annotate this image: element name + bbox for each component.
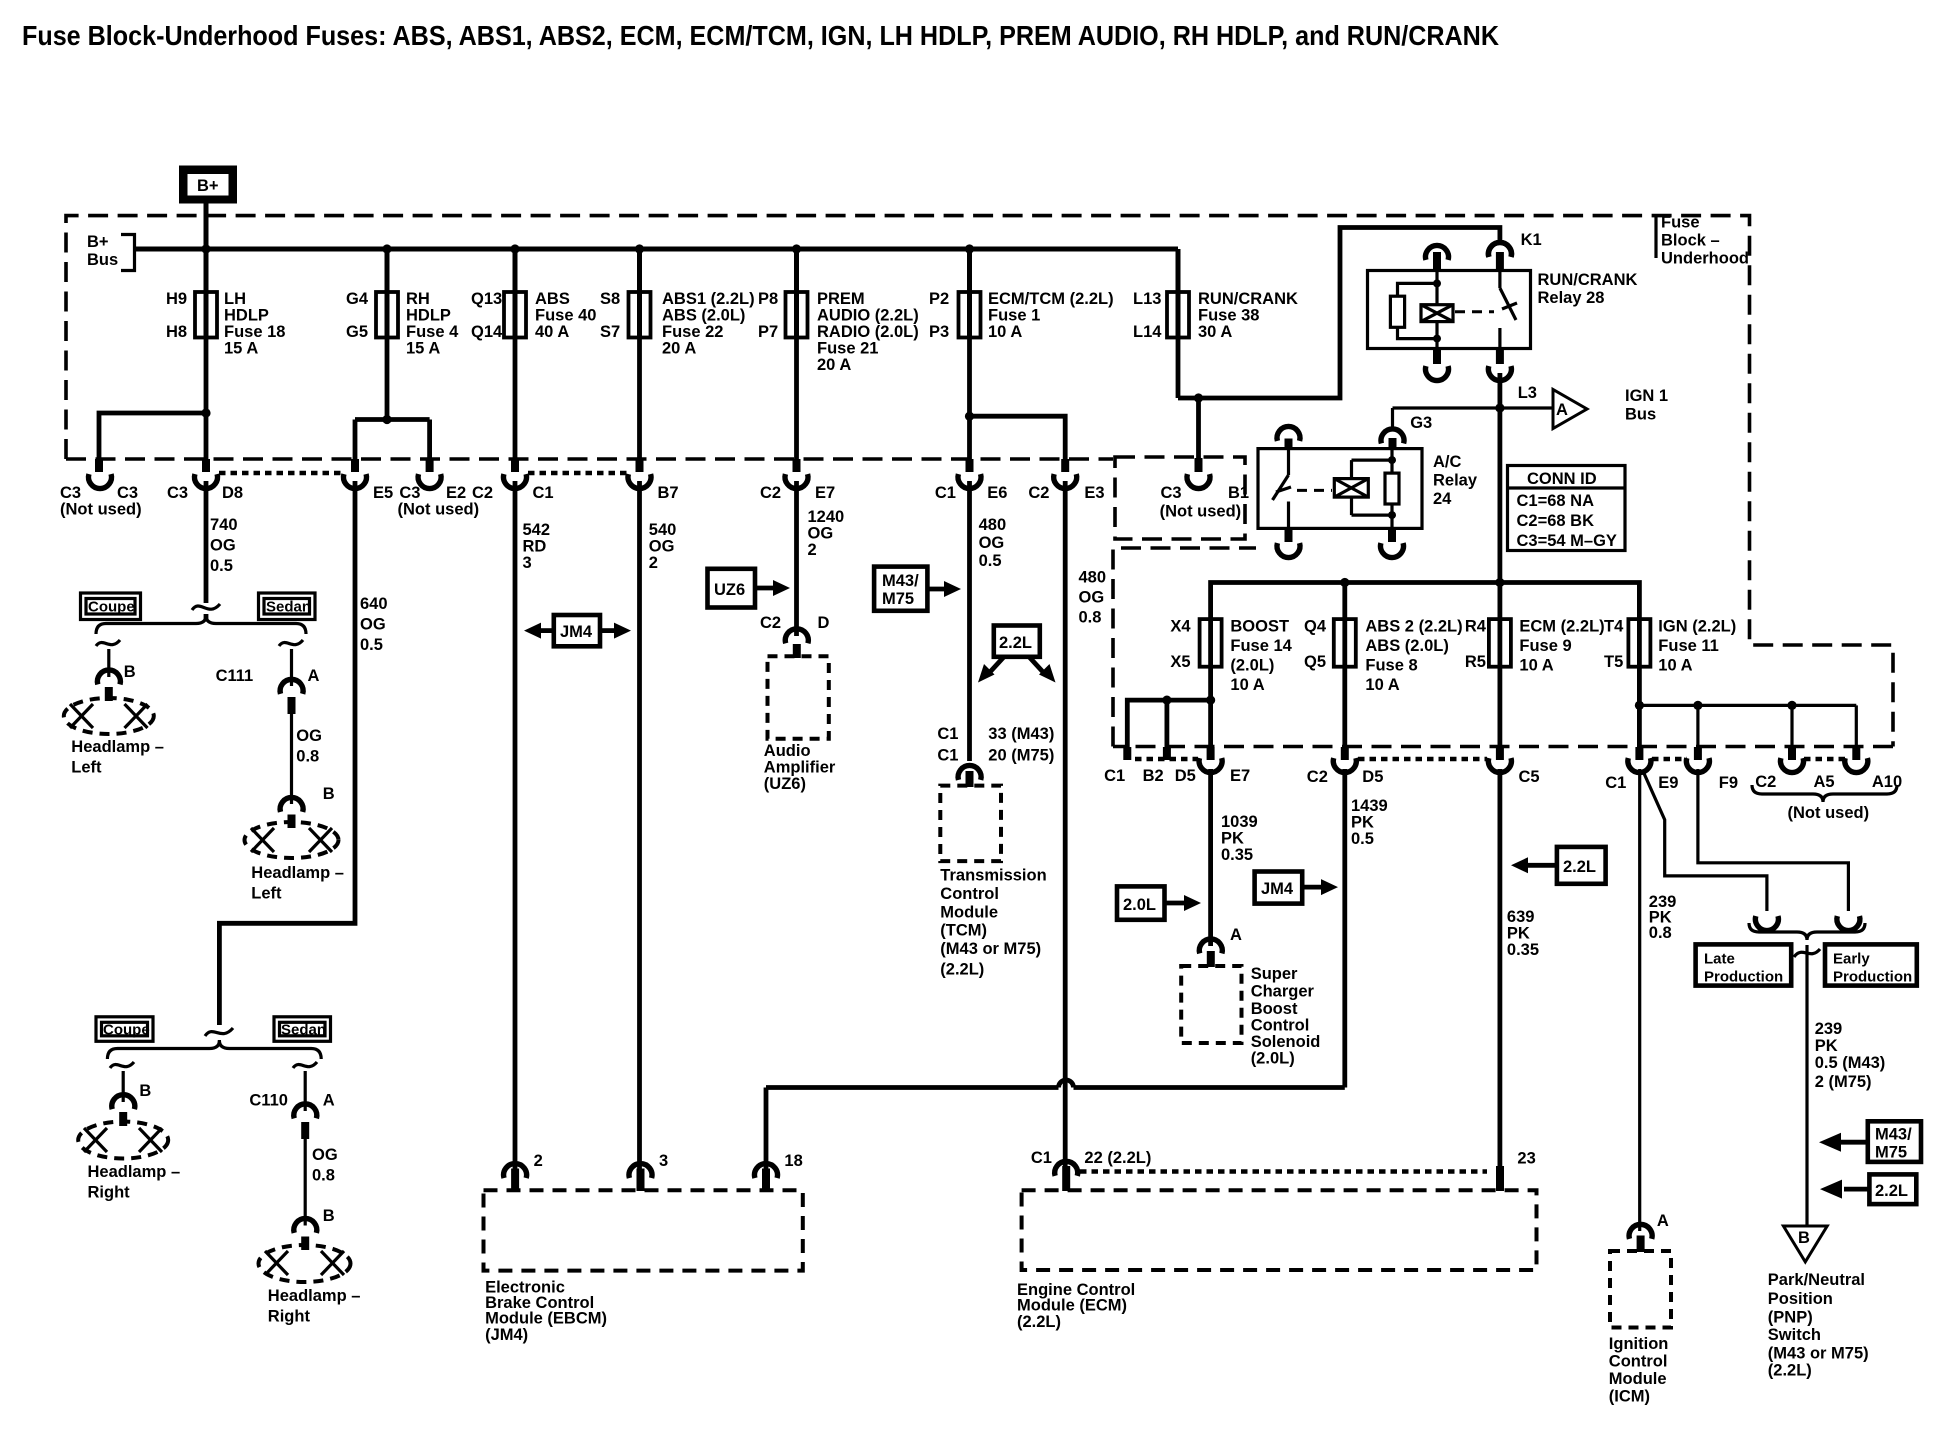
svg-text:C2: C2: [760, 614, 781, 632]
svg-text:Fuse 9: Fuse 9: [1519, 637, 1571, 655]
svg-text:H8: H8: [166, 323, 187, 341]
svg-text:Fuse 11: Fuse 11: [1658, 637, 1719, 655]
svg-text:1439: 1439: [1351, 797, 1388, 815]
production connector arc left: [1755, 916, 1778, 931]
svg-text:(M43 or M75): (M43 or M75): [1768, 1345, 1869, 1363]
M43/M75 option callout 2: [1819, 1121, 1921, 1162]
svg-text:A: A: [323, 1092, 335, 1110]
svg-text:24: 24: [1433, 490, 1452, 508]
production brace: [1749, 923, 1865, 940]
svg-text:2.2L: 2.2L: [1563, 858, 1596, 876]
svg-text:C5: C5: [1519, 768, 1540, 786]
svg-text:G4: G4: [346, 290, 369, 308]
svg-text:E6: E6: [987, 484, 1007, 502]
svg-text:RUN/CRANK: RUN/CRANK: [1538, 271, 1638, 289]
svg-text:B+: B+: [87, 233, 109, 251]
svg-text:2: 2: [808, 541, 817, 559]
svg-text:PREM: PREM: [817, 290, 865, 308]
svg-text:B: B: [124, 663, 136, 681]
Ignition Control Module (ICM): [1610, 1251, 1671, 1328]
svg-text:H9: H9: [166, 290, 187, 308]
svg-text:639: 639: [1507, 908, 1535, 926]
svg-text:0.35: 0.35: [1507, 941, 1539, 959]
svg-text:Fuse 21: Fuse 21: [817, 340, 878, 358]
svg-text:22 (2.2L): 22 (2.2L): [1084, 1149, 1151, 1167]
svg-text:C1=68 NA: C1=68 NA: [1517, 492, 1595, 510]
ECM fuse output: [1498, 667, 1503, 747]
production connector arc right: [1837, 916, 1860, 931]
svg-text:OG: OG: [312, 1146, 338, 1164]
fuse F22 ABS1: [600, 290, 755, 358]
svg-text:P8: P8: [758, 290, 778, 308]
svg-text:B: B: [1798, 1229, 1810, 1247]
svg-text:P7: P7: [758, 323, 778, 341]
CONN ID legend: [1508, 466, 1626, 551]
svg-text:0.5: 0.5: [210, 557, 233, 575]
svg-text:Headlamp –: Headlamp –: [88, 1163, 181, 1181]
svg-text:0.5: 0.5: [1351, 830, 1374, 848]
svg-text:Module (EBCM): Module (EBCM): [485, 1310, 607, 1328]
svg-text:Coupe: Coupe: [103, 1022, 150, 1039]
svg-text:OG: OG: [979, 534, 1005, 552]
svg-text:3: 3: [523, 554, 532, 572]
fuse F11 IGN: [1604, 618, 1736, 675]
connector C110 pin A: [294, 1104, 317, 1119]
connector B headlamp right sedan: [294, 1218, 317, 1233]
wire 639 PK 0.35: [1498, 769, 1503, 1168]
connector C1 pin E6: [966, 459, 974, 472]
svg-text:C1: C1: [1031, 1149, 1052, 1167]
Engine Control Module (ECM): [1022, 1190, 1537, 1270]
connector row dashes A5-A10: [1804, 757, 1845, 762]
svg-text:15 A: 15 A: [406, 340, 440, 358]
svg-text:D: D: [818, 614, 830, 632]
svg-text:480: 480: [979, 516, 1007, 534]
svg-text:E7: E7: [815, 484, 835, 502]
connector C1 pin E9: [1635, 747, 1643, 760]
connector row dashes D5-C5: [1358, 757, 1487, 762]
svg-text:C1: C1: [935, 484, 956, 502]
svg-text:K1: K1: [1521, 231, 1542, 249]
svg-text:C2: C2: [1307, 768, 1328, 786]
A/C coil-switch dashed link: [1297, 489, 1332, 492]
fuse F40 ABS: [471, 290, 596, 341]
svg-text:(Not used): (Not used): [1788, 804, 1870, 822]
fuse F4 RH HDLP: [346, 290, 459, 358]
svg-text:OG: OG: [360, 616, 386, 634]
wire OG 0.8 sedan right: [304, 1139, 307, 1226]
svg-text:IGN 1: IGN 1: [1625, 387, 1668, 405]
fuse F1 ECM/TCM: [929, 290, 1114, 341]
ABS2 fuse output: [1342, 667, 1347, 747]
svg-text:P3: P3: [929, 323, 949, 341]
connector B headlamp left sedan: [280, 797, 303, 812]
Early Production callout: [1825, 944, 1917, 985]
svg-text:Amplifier: Amplifier: [764, 759, 836, 777]
svg-text:Right: Right: [268, 1308, 311, 1326]
svg-text:R4: R4: [1465, 618, 1487, 636]
svg-text:C2: C2: [1755, 773, 1776, 791]
svg-text:0.8: 0.8: [1079, 609, 1102, 627]
svg-text:2: 2: [534, 1152, 543, 1170]
wire bus to fuse 1: [967, 249, 972, 292]
svg-text:3: 3: [659, 1152, 668, 1170]
connector C111 pin A: [280, 679, 303, 694]
svg-text:C1: C1: [533, 484, 554, 502]
inner fuse row feed wire: [1211, 578, 1640, 619]
svg-text:PK: PK: [1815, 1037, 1838, 1055]
svg-text:L3: L3: [1518, 384, 1537, 402]
M43/M75 option callout: [874, 567, 961, 611]
svg-text:Fuse Block-Underhood Fuses: AB: Fuse Block-Underhood Fuses: ABS, ABS1, A…: [22, 20, 1499, 51]
svg-text:L14: L14: [1133, 323, 1162, 341]
svg-text:10 A: 10 A: [1230, 676, 1264, 694]
svg-text:23: 23: [1517, 1150, 1535, 1168]
svg-text:1240: 1240: [808, 508, 845, 526]
connector C3 pin B1 (not used): [1195, 458, 1203, 472]
svg-text:M43/: M43/: [1875, 1126, 1912, 1144]
svg-text:C3: C3: [399, 484, 420, 502]
wire fuse 21 output: [794, 338, 799, 460]
svg-text:10 A: 10 A: [1519, 657, 1553, 675]
svg-text:C2: C2: [760, 484, 781, 502]
svg-text:C1: C1: [1605, 774, 1626, 792]
wire 540 OG 2: [637, 481, 642, 1170]
svg-text:(UZ6): (UZ6): [764, 775, 806, 793]
fuse F38 RUN/CRANK: [1133, 290, 1298, 341]
svg-text:0.35: 0.35: [1221, 846, 1253, 864]
svg-text:Fuse 14: Fuse 14: [1230, 637, 1292, 655]
svg-text:B+: B+: [197, 177, 219, 195]
connector row dashes C1-B7: [528, 471, 627, 476]
K1 feed wire from fuse 38: [1178, 228, 1500, 459]
wire F9 branch to production splice: [1698, 769, 1849, 911]
svg-text:Production: Production: [1833, 969, 1912, 986]
svg-text:C1: C1: [1104, 767, 1125, 785]
connector C2 pin A5 (not used): [1788, 747, 1796, 760]
connector arc C3 (not used): [89, 474, 112, 489]
headlamp left (coupe): [64, 698, 154, 734]
Fuse Block label: [1656, 214, 1749, 268]
svg-text:M75: M75: [882, 590, 914, 608]
svg-text:1039: 1039: [1221, 813, 1258, 831]
connector C3 not used stub: [95, 459, 103, 472]
svg-text:Super: Super: [1251, 965, 1298, 983]
connector C3 pin E2 not used: [426, 459, 434, 472]
wire 542 RD 3: [513, 481, 518, 1170]
wire 239 PK to PNP switch: [1805, 945, 1808, 1226]
JM4 splice callout with arrows: [524, 615, 631, 646]
svg-text:B: B: [323, 1207, 335, 1225]
wire net to EBCM 18 with hop over 480 wire: [766, 1080, 1345, 1170]
K1 relay bottom connector arcs: [1433, 349, 1441, 365]
fuse F9 ECM: [1465, 618, 1605, 675]
svg-text:(Not used): (Not used): [398, 501, 480, 519]
svg-text:Right: Right: [88, 1184, 131, 1202]
svg-text:18: 18: [784, 1152, 802, 1170]
svg-text:Left: Left: [71, 759, 102, 777]
svg-text:Early: Early: [1833, 951, 1870, 968]
svg-text:542: 542: [523, 521, 551, 539]
svg-text:480: 480: [1079, 569, 1107, 587]
svg-text:E2: E2: [446, 484, 466, 502]
connector C3 dashed box (B1 not used): [1115, 457, 1245, 539]
svg-text:ABS1 (2.2L): ABS1 (2.2L): [662, 290, 755, 308]
svg-text:S7: S7: [600, 323, 620, 341]
svg-text:239: 239: [1815, 1020, 1843, 1038]
connector row dashes D8-E5: [219, 471, 342, 476]
svg-text:A5: A5: [1814, 773, 1835, 791]
svg-text:ABS (2.0L): ABS (2.0L): [662, 307, 745, 325]
wire fuse 4 output split: [355, 338, 430, 460]
svg-text:OG: OG: [649, 538, 675, 556]
svg-text:(2.0L): (2.0L): [1251, 1050, 1295, 1068]
svg-text:M75: M75: [1875, 1144, 1907, 1162]
svg-text:ECM (2.2L): ECM (2.2L): [1519, 618, 1604, 636]
svg-text:Transmission: Transmission: [940, 867, 1046, 885]
svg-text:ABS 2 (2.2L): ABS 2 (2.2L): [1365, 618, 1462, 636]
svg-text:33 (M43): 33 (M43): [988, 725, 1054, 743]
svg-text:S8: S8: [600, 290, 620, 308]
svg-text:(M43 or M75): (M43 or M75): [940, 940, 1041, 958]
svg-text:B: B: [323, 785, 335, 803]
svg-text:Production: Production: [1704, 969, 1783, 986]
IGN 1 Bus tap: [1393, 387, 1669, 429]
svg-text:0.8: 0.8: [312, 1167, 335, 1185]
connector C1 pin 22 ECM: [1055, 1161, 1078, 1176]
svg-text:Module (ECM): Module (ECM): [1017, 1297, 1127, 1315]
connector pin D5 stub: [1163, 747, 1171, 760]
Super Charger Boost Control Solenoid: [1181, 966, 1241, 1043]
JM4 option callout 2: [1255, 872, 1338, 904]
svg-text:40 A: 40 A: [535, 323, 569, 341]
K1 relay coil connector arc top left: [1426, 245, 1449, 260]
svg-text:(JM4): (JM4): [485, 1326, 528, 1344]
svg-text:X4: X4: [1170, 618, 1191, 636]
connector C5: [1496, 747, 1504, 760]
sedan branch wire: [279, 640, 303, 686]
svg-text:(TCM): (TCM): [940, 922, 987, 940]
svg-text:(2.2L): (2.2L): [940, 960, 984, 978]
svg-text:C110: C110: [249, 1092, 288, 1110]
connector C3 pin E5: [351, 459, 359, 472]
svg-text:Coupe: Coupe: [88, 599, 135, 616]
svg-text:(2.0L): (2.0L): [1230, 657, 1274, 675]
svg-text:PK: PK: [1351, 814, 1374, 832]
svg-text:15 A: 15 A: [224, 340, 258, 358]
svg-text:2.2L: 2.2L: [999, 634, 1032, 652]
svg-text:HDLP: HDLP: [224, 307, 269, 325]
connector row dashes 22-23: [1080, 1169, 1487, 1174]
svg-text:LH: LH: [224, 290, 246, 308]
svg-text:OG: OG: [808, 525, 834, 543]
svg-text:(PNP): (PNP): [1768, 1309, 1813, 1327]
break squiggle right headlamp feed: [205, 1028, 233, 1046]
svg-text:A: A: [1556, 401, 1568, 419]
fuse block outer dashed boundary: [66, 216, 1893, 747]
svg-text:Position: Position: [1768, 1290, 1833, 1308]
svg-text:Park/Neutral: Park/Neutral: [1768, 1271, 1865, 1289]
connector pin 18 EBCM: [755, 1164, 778, 1179]
svg-text:B7: B7: [658, 484, 679, 502]
svg-text:Boost: Boost: [1251, 1000, 1298, 1018]
Late Production callout: [1696, 944, 1792, 985]
svg-text:OG: OG: [210, 537, 236, 555]
svg-text:Fuse 4: Fuse 4: [406, 323, 459, 341]
connector pin 23 ECM: [1489, 242, 1512, 257]
svg-text:G3: G3: [1410, 414, 1432, 432]
2.2L option callout 3: [1820, 1174, 1916, 1204]
wire fuse 40 output: [513, 338, 518, 460]
wire 640 OG 0.5: [219, 481, 355, 1025]
connector pin F9: [1694, 747, 1702, 760]
wire fuse 1 output split: [965, 338, 1065, 460]
svg-text:C3: C3: [60, 484, 81, 502]
svg-text:IGN (2.2L): IGN (2.2L): [1658, 618, 1736, 636]
svg-text:B1: B1: [1228, 484, 1249, 502]
B+ bus bracket: [87, 233, 135, 271]
svg-text:Fuse: Fuse: [1661, 214, 1700, 232]
svg-text:E7: E7: [1230, 767, 1250, 785]
svg-text:B2: B2: [1143, 767, 1164, 785]
svg-text:RUN/CRANK: RUN/CRANK: [1198, 290, 1298, 308]
svg-text:Fuse 38: Fuse 38: [1198, 307, 1259, 325]
svg-text:C3=54 M–GY: C3=54 M–GY: [1517, 532, 1617, 550]
svg-text:PK: PK: [1507, 925, 1530, 943]
svg-text:Solenoid: Solenoid: [1251, 1033, 1321, 1051]
svg-text:RADIO (2.0L): RADIO (2.0L): [817, 323, 919, 341]
svg-text:Sedan: Sedan: [266, 599, 311, 616]
connector C1 pin E7: [1207, 747, 1215, 760]
svg-text:0.8: 0.8: [296, 748, 319, 766]
headlamp split brace 2: [107, 1041, 321, 1060]
svg-text:740: 740: [210, 516, 238, 534]
connector row dashes E9-F9: [1652, 757, 1687, 762]
svg-text:Left: Left: [251, 885, 282, 903]
svg-text:ABS (2.0L): ABS (2.0L): [1365, 637, 1448, 655]
svg-text:Relay 28: Relay 28: [1538, 289, 1605, 307]
svg-text:BOOST: BOOST: [1230, 618, 1289, 636]
IGN fuse output: [1635, 667, 1857, 747]
svg-text:ABS: ABS: [535, 290, 570, 308]
svg-text:Headlamp –: Headlamp –: [71, 738, 164, 756]
svg-text:Module: Module: [1609, 1370, 1667, 1388]
headlamp split brace 1: [96, 616, 306, 635]
svg-text:L13: L13: [1133, 290, 1161, 308]
svg-text:(Not used): (Not used): [60, 501, 142, 519]
svg-text:PK: PK: [1221, 830, 1244, 848]
wire fuse 18 output split: [99, 338, 211, 460]
svg-text:540: 540: [649, 521, 677, 539]
svg-text:Switch: Switch: [1768, 1326, 1821, 1344]
svg-text:UZ6: UZ6: [714, 581, 745, 599]
wire K1 to IGN1 bus junction: [1498, 373, 1503, 583]
svg-text:G5: G5: [346, 323, 368, 341]
wire 480 OG 0.8 to ECM: [1063, 481, 1068, 1168]
svg-text:10 A: 10 A: [988, 323, 1022, 341]
svg-text:D8: D8: [222, 484, 243, 502]
A/C relay coil circuit: [1334, 449, 1399, 528]
connector B headlamp right coupe: [112, 1095, 135, 1110]
svg-text:C2: C2: [472, 484, 493, 502]
svg-text:30 A: 30 A: [1198, 323, 1232, 341]
wire 1240 OG 2: [794, 481, 799, 636]
connector pin A10 (not used): [1852, 747, 1860, 760]
G3 connector arc: [1381, 408, 1432, 449]
svg-text:Q13: Q13: [471, 290, 502, 308]
svg-text:RH: RH: [406, 290, 430, 308]
Coupe callout box 2: [96, 1017, 153, 1042]
svg-text:C1: C1: [937, 725, 958, 743]
svg-text:Charger: Charger: [1251, 983, 1315, 1001]
A/C relay switch pin arc top left: [1277, 426, 1300, 441]
svg-text:X5: X5: [1170, 653, 1190, 671]
A/C relay switch: [1273, 449, 1292, 529]
headlamp left (sedan): [245, 822, 339, 858]
Audio Amplifier (UZ6) module: [768, 656, 829, 739]
svg-text:Relay: Relay: [1433, 472, 1478, 490]
wire bus to fuse 18: [204, 249, 209, 292]
svg-text:T5: T5: [1604, 653, 1623, 671]
svg-text:E9: E9: [1658, 774, 1678, 792]
coupe branch wire 2: [110, 1062, 134, 1102]
Electronic Brake Control Module (EBCM): [484, 1190, 803, 1270]
svg-text:0.5: 0.5: [979, 552, 1002, 570]
svg-text:D5: D5: [1362, 768, 1383, 786]
coupe branch wire: [96, 640, 120, 677]
svg-text:A: A: [308, 667, 320, 685]
svg-text:CONN ID: CONN ID: [1527, 470, 1597, 488]
connector C2 pin E7: [793, 459, 801, 472]
wire 740 OG 0.5: [192, 481, 220, 621]
wire 1439 PK 0.5: [1342, 769, 1347, 1088]
K1 relay coil circuit: [1390, 271, 1453, 349]
wire OG 0.8 sedan left: [290, 714, 293, 804]
svg-text:10 A: 10 A: [1658, 657, 1692, 675]
svg-text:C111: C111: [216, 667, 254, 685]
svg-text:(Not used): (Not used): [1160, 503, 1242, 521]
svg-text:Fuse 1: Fuse 1: [988, 307, 1040, 325]
svg-text:C2: C2: [1028, 484, 1049, 502]
svg-text:0.5: 0.5: [360, 636, 383, 654]
Sedan callout box: [259, 593, 316, 620]
connector pin 3 EBCM: [629, 1164, 652, 1179]
svg-text:Sedan: Sedan: [281, 1022, 326, 1039]
connector B headlamp left coupe: [97, 670, 120, 685]
connector C2 pin D5: [1341, 747, 1349, 760]
wire B+ to bus: [204, 204, 209, 250]
svg-text:Late: Late: [1704, 951, 1735, 968]
wire bus corner to fuse 38: [1176, 249, 1181, 292]
svg-text:Ignition: Ignition: [1609, 1335, 1669, 1353]
svg-text:(ICM): (ICM): [1609, 1388, 1650, 1406]
svg-text:P2: P2: [929, 290, 949, 308]
fuse F18 LH HDLP: [166, 290, 285, 358]
UZ6 option callout: [708, 569, 791, 608]
svg-text:0.5 (M43): 0.5 (M43): [1815, 1054, 1886, 1072]
2.2L option callout (dual arrow): [978, 626, 1056, 683]
svg-text:Q14: Q14: [471, 323, 503, 341]
svg-text:20 A: 20 A: [817, 356, 851, 374]
wire bus to fuse 22: [637, 249, 642, 292]
svg-text:F9: F9: [1719, 774, 1738, 792]
svg-text:A: A: [1230, 926, 1242, 944]
connector pin 2 EBCM: [504, 1164, 527, 1179]
svg-text:E3: E3: [1084, 484, 1104, 502]
svg-text:Fuse 40: Fuse 40: [535, 307, 596, 325]
svg-text:20 A: 20 A: [662, 340, 696, 358]
svg-text:Headlamp –: Headlamp –: [268, 1287, 361, 1305]
